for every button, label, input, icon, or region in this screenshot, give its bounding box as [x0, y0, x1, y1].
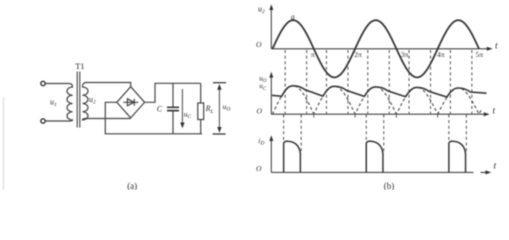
wf2 y-axis — [270, 76, 272, 115]
svg-text:u2: u2 — [258, 5, 265, 16]
scan artifact left edge — [3, 97, 5, 190]
wire bridge positive to top rail — [145, 83, 201, 102]
wf3 diode current pulse 3 — [449, 141, 466, 172]
capacitor C plates — [167, 107, 179, 110]
svg-text:u1: u1 — [50, 97, 57, 108]
dashed guide line pulse end hump 1 — [300, 115, 302, 155]
wf2 axis tick at zero 3 — [395, 114, 397, 117]
transformer secondary winding — [83, 83, 89, 121]
capacitor C wires — [172, 83, 174, 134]
svg-text:uC: uC — [184, 109, 192, 120]
svg-text:t: t — [494, 162, 497, 172]
wf1 x-axis — [271, 48, 488, 50]
svg-text:(b): (b) — [384, 181, 395, 190]
svg-text:O: O — [256, 164, 262, 173]
svg-text:t: t — [493, 106, 496, 116]
wire secondary bottom to bridge AC2 — [85, 118, 131, 120]
wf1 y-axis — [270, 8, 272, 49]
dashed guide line conduction start hump 4 — [408, 50, 410, 114]
svg-text:(a): (a) — [127, 181, 137, 190]
wf2 x-axis — [271, 113, 485, 115]
wf2 capacitor voltage solid curve — [272, 86, 487, 97]
dashed guide line conduction end hump 1 — [306, 50, 308, 114]
uO measurement arrow top bar — [213, 82, 226, 84]
uC arrow — [181, 89, 183, 124]
svg-text:π: π — [311, 50, 315, 59]
terminal input bottom — [41, 119, 45, 123]
svg-text:5π: 5π — [476, 50, 484, 59]
dashed guide line conduction start hump 5 — [449, 50, 451, 114]
diode symbol inside bridge — [123, 99, 138, 106]
dashed guide line pulse end hump 5 — [465, 115, 467, 155]
dashed guide line conduction start hump 1 — [284, 50, 286, 114]
svg-text:a: a — [291, 13, 295, 22]
dashed guide line pulse start hump 3 — [365, 115, 367, 142]
dashed guide line pulse end hump 3 — [383, 115, 385, 155]
dashed guide line pulse start hump 1 — [283, 115, 285, 142]
uO measurement arrow bottom bar — [213, 133, 226, 135]
wf2 axis tick at zero 2 — [354, 114, 356, 117]
svg-text:O: O — [256, 40, 262, 49]
bridge rectifier diamond — [117, 87, 145, 118]
svg-text:u2: u2 — [89, 95, 96, 106]
transformer T1 primary winding and wires — [45, 84, 72, 122]
svg-text:t: t — [495, 41, 498, 51]
svg-text:iD: iD — [258, 136, 264, 147]
dashed guide line conduction end hump 4 — [430, 50, 432, 114]
wf2 axis tick at zero 4 — [437, 114, 439, 117]
wire secondary top to bridge AC1 — [85, 83, 131, 87]
dashed guide line conduction start hump 2 — [325, 50, 327, 114]
wf3 diode current pulse 2 — [366, 141, 383, 172]
svg-text:RL: RL — [205, 104, 214, 115]
wf3 diode current pulse 1 — [284, 141, 301, 172]
wf2 dashed rectified sine — [273, 86, 482, 114]
svg-text:3π: 3π — [401, 50, 409, 59]
dashed guide line conduction start hump 3 — [367, 50, 369, 114]
transformer core — [77, 72, 80, 128]
wf2 axis tick at zero 1 — [313, 114, 315, 117]
svg-text:4π: 4π — [437, 50, 445, 59]
terminal input top — [41, 81, 45, 85]
dashed guide line conduction end hump 5 — [471, 50, 473, 114]
resistor RL body — [198, 103, 204, 120]
uO double arrow — [218, 86, 220, 131]
svg-text:uO: uO — [223, 102, 231, 113]
wire bridge negative to bottom rail — [105, 102, 202, 134]
dashed guide line conduction end hump 2 — [347, 50, 349, 114]
svg-text:2π: 2π — [354, 50, 362, 59]
wf1 sine curve u2 — [273, 20, 479, 77]
wf3 x-axis — [271, 171, 487, 173]
dashed guide line conduction end hump 3 — [388, 50, 390, 114]
svg-text:C: C — [157, 104, 163, 113]
svg-text:T1: T1 — [75, 61, 84, 71]
dashed guide line pulse start hump 5 — [448, 115, 450, 142]
svg-text:O: O — [257, 107, 263, 116]
resistor RL wires — [200, 83, 202, 134]
wf3 y-axis — [270, 139, 272, 172]
